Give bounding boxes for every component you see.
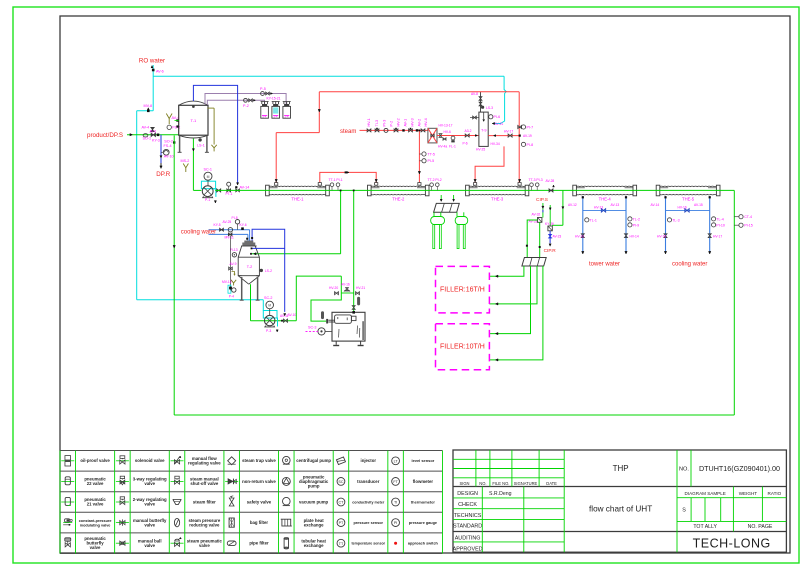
CIP drain drop (blue) to DP.R xyxy=(160,135,162,169)
svg-text:valve: valve xyxy=(144,543,155,548)
svg-text:oil-proof valve: oil-proof valve xyxy=(80,458,110,463)
svg-text:HV-20: HV-20 xyxy=(329,286,338,290)
svg-text:SO-1: SO-1 xyxy=(143,137,152,141)
title block header labels xyxy=(459,481,557,486)
svg-text:modulating valve: modulating valve xyxy=(80,523,111,527)
legend: pipe filter symbol xyxy=(227,541,236,545)
legend: steam pressure reducing valve symbol xyxy=(174,518,179,526)
svg-text:CIP.S: CIP.S xyxy=(536,197,548,203)
heat exchanger THE-3 xyxy=(466,185,529,196)
svg-text:pump: pump xyxy=(308,483,320,488)
legend: manual flow regulating valve symbol xyxy=(171,460,184,462)
legend: safety valve symbol xyxy=(229,498,234,502)
svg-text:RO water: RO water xyxy=(139,57,165,64)
svg-text:AV-32: AV-32 xyxy=(532,213,541,217)
svg-text:HV-13: HV-13 xyxy=(594,205,603,209)
red top rail xyxy=(319,91,519,93)
svg-text:STANDARD: STANDARD xyxy=(453,524,482,530)
steam line to vessel T-9 xyxy=(437,130,479,148)
svg-text:T-2: T-2 xyxy=(247,265,253,269)
valve AV-6 xyxy=(151,66,164,74)
instruments TT-5 PI-5 xyxy=(419,152,434,163)
green feed to tank T-2 xyxy=(252,190,342,255)
svg-text:pipe filter: pipe filter xyxy=(249,541,269,546)
svg-text:THE-1: THE-1 xyxy=(291,196,304,201)
svg-text:T-1: T-1 xyxy=(191,118,198,123)
svg-text:TI-3: TI-3 xyxy=(375,120,379,127)
svg-text:steam filter: steam filter xyxy=(193,499,216,504)
instruments CT-4 PI-15 on return rail xyxy=(734,215,752,228)
svg-text:FS-4: FS-4 xyxy=(164,144,172,148)
heat exchanger THE-4 xyxy=(573,185,637,196)
svg-text:FILLER:16T/H: FILLER:16T/H xyxy=(440,287,485,294)
product valve cluster xyxy=(142,125,176,143)
svg-text:temperature sensor: temperature sensor xyxy=(351,542,385,546)
svg-text:HV-13-17: HV-13-17 xyxy=(439,124,453,128)
svg-text:P-5: P-5 xyxy=(260,87,266,91)
svg-text:NO.: NO. xyxy=(679,467,689,473)
svg-text:valve: valve xyxy=(144,481,155,486)
legend: non-return valve symbol xyxy=(225,480,238,482)
svg-text:3-4: 3-4 xyxy=(273,115,277,119)
blue line T-2 top to pump P-3 xyxy=(246,229,296,317)
svg-text:21 valve: 21 valve xyxy=(87,502,104,507)
recirculation valves HV-20 HV-21 xyxy=(329,283,365,295)
legend: PI pressure gauge symbol xyxy=(392,519,400,527)
svg-text:TI: TI xyxy=(394,501,397,505)
svg-text:AV-10: AV-10 xyxy=(288,313,297,317)
svg-text:AV-10: AV-10 xyxy=(164,155,174,159)
svg-text:solenoid valve: solenoid valve xyxy=(135,458,165,463)
svg-text:cooling water: cooling water xyxy=(181,230,216,236)
svg-text:WEIGHT: WEIGHT xyxy=(739,491,758,496)
svg-text:PI-8: PI-8 xyxy=(232,216,238,220)
legend: pneumatic butterfly valve symbol xyxy=(65,538,71,541)
red drop to THE-1 left nozzle xyxy=(275,92,320,183)
svg-text:SIGNATURE: SIGNATURE xyxy=(514,481,538,486)
svg-text:KY-6: KY-6 xyxy=(240,223,247,227)
valve P-6 xyxy=(463,134,478,146)
legend: plate heat exchange symbol xyxy=(282,519,291,526)
legend: 3-way regulating valve symbol xyxy=(116,480,129,482)
svg-text:AV-14: AV-14 xyxy=(651,203,660,207)
svg-text:P-4: P-4 xyxy=(229,295,234,299)
product inlet line (green) xyxy=(127,134,179,136)
svg-text:injector: injector xyxy=(361,458,377,463)
svg-text:CT-4: CT-4 xyxy=(744,215,752,219)
svg-text:CT: CT xyxy=(338,501,344,505)
svg-text:AV-4: AV-4 xyxy=(142,125,150,129)
legend: FT flowmeter symbol xyxy=(392,478,400,486)
tank T-2 left instruments xyxy=(229,236,238,291)
svg-text:DTUHT16(GZ090401).00: DTUHT16(GZ090401).00 xyxy=(699,464,780,473)
svg-text:reducing valve: reducing valve xyxy=(189,522,220,527)
title block frame xyxy=(453,450,786,552)
svg-text:NO.: NO. xyxy=(479,481,486,486)
svg-text:SC-2: SC-2 xyxy=(264,296,272,300)
svg-text:TL-2: TL-2 xyxy=(633,217,640,221)
Y strainer FS-2 xyxy=(166,114,180,130)
valve AV-28 on main line xyxy=(546,179,555,192)
tank T-2 xyxy=(238,241,259,301)
svg-text:P-3: P-3 xyxy=(266,329,271,333)
svg-text:exchange: exchange xyxy=(304,543,324,548)
svg-text:AV-14: AV-14 xyxy=(240,186,250,190)
svg-text:steam: steam xyxy=(340,129,356,135)
legend: manual ball valve symbol xyxy=(116,542,129,544)
svg-text:LS-2: LS-2 xyxy=(265,269,272,273)
svg-text:P-2: P-2 xyxy=(243,104,249,108)
svg-text:THP: THP xyxy=(613,464,629,473)
long green CIP supply vertical xyxy=(173,136,175,416)
svg-text:AV-21: AV-21 xyxy=(495,122,504,126)
cooling water circuit THE-5 (blue) xyxy=(651,196,725,254)
svg-text:THE-3: THE-3 xyxy=(491,196,504,201)
valve MV-8 on cyan jog xyxy=(144,104,153,112)
svg-text:3-4: 3-4 xyxy=(284,115,288,119)
svg-text:TT-1 PI-1: TT-1 PI-1 xyxy=(329,178,343,182)
heat exchanger THE-1 xyxy=(266,185,330,196)
svg-text:RATIO: RATIO xyxy=(768,491,782,496)
svg-text:steam trap valve: steam trap valve xyxy=(242,458,276,463)
red downcomer right xyxy=(518,92,522,183)
legend: tubular heat exchange symbol xyxy=(284,538,288,548)
svg-text:shut-off valve: shut-off valve xyxy=(190,481,219,486)
svg-text:DP.R: DP.R xyxy=(156,171,171,178)
cooling water valves xyxy=(214,216,247,239)
svg-text:KY-5: KY-5 xyxy=(214,223,221,227)
svg-text:FILE NO.: FILE NO. xyxy=(492,481,509,486)
svg-text:AV-13: AV-13 xyxy=(611,203,620,207)
pump P-1 with motor SC-1 xyxy=(201,167,216,203)
svg-text:non-return valve: non-return valve xyxy=(242,479,276,484)
tower water circuit THE-4 (blue) xyxy=(568,196,640,254)
red transfer THE-1 to THE-2 xyxy=(320,171,378,184)
exchanger top nozzles xyxy=(275,183,522,186)
legend: steam pneumatic valve symbol xyxy=(171,542,184,544)
svg-text:pressure sensor: pressure sensor xyxy=(353,521,383,525)
svg-text:vacuum pump: vacuum pump xyxy=(299,499,329,504)
svg-text:approach switch: approach switch xyxy=(408,542,439,546)
pump P-4 cluster xyxy=(222,280,236,299)
svg-text:cooling water: cooling water xyxy=(672,261,707,267)
svg-text:AV-25: AV-25 xyxy=(223,220,232,224)
labels DIAGRAM SAMPLE WEIGHT RATIO xyxy=(685,491,782,496)
svg-text:regulating valve: regulating valve xyxy=(188,460,221,465)
svg-text:HV-21: HV-21 xyxy=(356,286,365,290)
svg-text:valve: valve xyxy=(144,522,155,527)
valve on homogenizer feed xyxy=(352,306,355,314)
svg-text:constant-pressure: constant-pressure xyxy=(79,519,112,523)
pulse damper capsules xyxy=(321,297,360,319)
svg-text:TECHNICS: TECHNICS xyxy=(454,513,482,519)
legend: TI thermometer symbol xyxy=(392,498,400,506)
CIP supply label and drop xyxy=(536,197,551,226)
legend: steam trap valve symbol xyxy=(228,457,236,465)
svg-text:AV-12: AV-12 xyxy=(568,203,577,207)
svg-text:AV-15: AV-15 xyxy=(694,203,703,207)
T-9 instruments xyxy=(465,106,504,152)
svg-text:TOT ALLY: TOT ALLY xyxy=(693,524,717,530)
heat exchanger THE-5 xyxy=(656,185,720,196)
svg-text:DATE: DATE xyxy=(546,481,557,486)
svg-text:PI-13: PI-13 xyxy=(230,248,238,252)
valve P-2 xyxy=(243,98,256,107)
svg-text:level sensor: level sensor xyxy=(412,458,435,463)
filler box FILLER:16T/H xyxy=(436,266,490,313)
svg-text:tower water: tower water xyxy=(589,261,620,267)
pump PU-1 circle xyxy=(161,144,174,159)
svg-text:PI-8: PI-8 xyxy=(527,143,534,147)
svg-text:PT-1: PT-1 xyxy=(226,192,233,196)
pump P-3 with motor SC-2 xyxy=(263,296,278,333)
svg-text:product/DP.S: product/DP.S xyxy=(87,132,123,139)
legend: TT temperature sensor symbol xyxy=(337,539,345,547)
svg-text:P-6: P-6 xyxy=(463,142,468,146)
svg-text:bag filter: bag filter xyxy=(250,520,268,525)
valve P-5 xyxy=(260,87,273,95)
svg-text:HV-3: HV-3 xyxy=(411,118,415,126)
svg-text:CHECK: CHECK xyxy=(458,502,477,508)
svg-text:flow chart of UHT: flow chart of UHT xyxy=(589,505,652,514)
svg-text:exchange: exchange xyxy=(304,522,324,527)
legend: PT pressure sensor symbol xyxy=(337,519,345,527)
svg-text:MS-2: MS-2 xyxy=(181,159,190,163)
homogenizer inlet stub xyxy=(326,319,334,324)
legend: CT conductivity meter symbol xyxy=(337,498,345,506)
steam header (red) xyxy=(360,129,428,131)
svg-text:valve: valve xyxy=(90,545,101,550)
svg-text:SC-1: SC-1 xyxy=(204,167,212,171)
steam header valves xyxy=(367,118,428,132)
svg-text:TT: TT xyxy=(339,542,344,546)
legend: manual butterfly valve symbol xyxy=(116,522,129,524)
svg-text:conductivity meter: conductivity meter xyxy=(352,500,385,504)
svg-text:LS-1: LS-1 xyxy=(197,144,205,148)
svg-text:AV-19: AV-19 xyxy=(523,134,532,138)
svg-text:M: M xyxy=(207,175,210,179)
svg-text:pressure gauge: pressure gauge xyxy=(409,521,437,525)
legend: pneumatic 21 valve symbol xyxy=(61,501,74,503)
legend: constant-pressure modulating valve symbol xyxy=(63,522,72,524)
svg-text:transducer: transducer xyxy=(357,479,380,484)
svg-text:flowmeter: flowmeter xyxy=(413,479,434,484)
svg-text:KY-26: KY-26 xyxy=(545,222,554,226)
red jog T-9 bottom to THE-3 xyxy=(474,146,504,182)
svg-text:KY-3: KY-3 xyxy=(152,138,160,142)
svg-text:safety valve: safety valve xyxy=(247,499,272,504)
homogenizer recirculation loop (green) xyxy=(296,276,353,321)
svg-text:AV-1: AV-1 xyxy=(404,119,408,127)
svg-text:3-4: 3-4 xyxy=(262,115,266,119)
legend: centrifugal pump symbol xyxy=(283,456,291,464)
svg-text:S.R.Deng: S.R.Deng xyxy=(489,491,512,497)
svg-text:HV-6: HV-6 xyxy=(444,130,451,134)
blue line tank T-1 to pump discharge xyxy=(193,85,249,191)
svg-text:FILLER:10T/H: FILLER:10T/H xyxy=(440,344,485,351)
steam pressure reducing station xyxy=(428,124,453,143)
svg-text:TT-3 PI-3: TT-3 PI-3 xyxy=(529,178,543,182)
green feed to homogenizer xyxy=(353,190,355,313)
svg-text:THE-5: THE-5 xyxy=(682,196,695,201)
svg-text:HV-16: HV-16 xyxy=(678,205,687,209)
legend: vacuum pump symbol xyxy=(283,497,291,505)
filler manifold M2 xyxy=(522,258,546,267)
svg-text:TL-3: TL-3 xyxy=(672,218,679,222)
CIP return blue drop xyxy=(544,231,562,254)
green jog to CIP valves xyxy=(552,190,564,225)
svg-text:APPROVED: APPROVED xyxy=(453,546,483,552)
svg-text:PI: PI xyxy=(394,521,397,525)
T-9 top fittings xyxy=(471,92,485,122)
svg-text:PT: PT xyxy=(339,521,344,525)
svg-text:TL-4: TL-4 xyxy=(716,217,723,221)
legend: injector symbol xyxy=(336,457,345,465)
svg-text:MV-12: MV-12 xyxy=(222,280,232,284)
svg-text:FL-1: FL-1 xyxy=(449,145,456,149)
svg-text:AV-28: AV-28 xyxy=(546,179,555,183)
svg-text:22 valve: 22 valve xyxy=(87,481,104,486)
svg-text:HV-34: HV-34 xyxy=(491,142,500,146)
svg-text:SIGN: SIGN xyxy=(459,481,469,486)
green bottom return rail xyxy=(174,414,734,416)
tank T-1 level sensor LS-1 xyxy=(197,138,205,147)
valve MS-2 strainer xyxy=(181,159,190,172)
svg-text:SC: SC xyxy=(338,480,343,484)
svg-text:HV-2: HV-2 xyxy=(397,118,401,126)
title block sign table grid xyxy=(453,450,564,552)
svg-text:AUDITING: AUDITING xyxy=(455,536,481,542)
svg-text:DIAGRAM SAMPLE: DIAGRAM SAMPLE xyxy=(685,491,726,496)
CIP return cyan line xyxy=(137,111,264,311)
svg-text:FT: FT xyxy=(393,480,398,484)
green right return rail xyxy=(733,190,735,415)
svg-text:MV-8: MV-8 xyxy=(144,104,153,108)
tank T-1 xyxy=(175,101,209,152)
cooler tube banks under M1 xyxy=(431,212,468,248)
svg-text:PI-10: PI-10 xyxy=(716,223,725,227)
svg-text:TL-1: TL-1 xyxy=(590,218,597,222)
svg-text:M: M xyxy=(268,304,271,308)
legend: steam manual shut-off valve symbol xyxy=(171,480,184,482)
svg-text:HV-4a: HV-4a xyxy=(438,145,447,149)
instruments TT-1 PI-1 xyxy=(329,178,343,190)
green main product line through exchangers xyxy=(215,189,734,191)
legend: pneumatic 22 valve symbol xyxy=(61,480,74,482)
svg-text:AV-8: AV-8 xyxy=(471,92,478,96)
steam outlet from T-9 (red) xyxy=(488,129,520,137)
svg-text:THE-4: THE-4 xyxy=(599,196,612,201)
svg-text:HV-17: HV-17 xyxy=(504,129,513,133)
svg-text:LS-3: LS-3 xyxy=(486,106,493,110)
filler manifold M2 feeds xyxy=(526,220,541,258)
svg-text:TT-5: TT-5 xyxy=(428,152,435,156)
svg-text:AV-11: AV-11 xyxy=(280,314,289,318)
legend: steam filter symbol xyxy=(173,499,181,504)
svg-text:DESIGN: DESIGN xyxy=(457,491,478,497)
svg-text:CIP.R: CIP.R xyxy=(544,248,557,254)
instruments PI-7 PI-8 xyxy=(521,125,533,147)
svg-text:valve: valve xyxy=(144,502,155,507)
svg-text:P-2: P-2 xyxy=(390,121,394,127)
tank T-2 level sensor LS-2 xyxy=(260,269,272,273)
instruments TT-2 PI-2 xyxy=(428,178,442,190)
vessel T-9 steam injector xyxy=(479,112,488,146)
svg-text:PI-6: PI-6 xyxy=(494,115,501,119)
svg-text:AV-5: AV-5 xyxy=(150,129,157,133)
svg-text:MV-11: MV-11 xyxy=(225,236,234,240)
legend: oil-proof valve symbol xyxy=(61,460,74,462)
svg-text:HV-25: HV-25 xyxy=(476,148,485,152)
plate heat exchanger M1 xyxy=(434,195,460,212)
svg-text:TECH-LONG: TECH-LONG xyxy=(693,537,771,551)
svg-text:thermometer: thermometer xyxy=(411,499,436,504)
dosing lines (purple) xyxy=(205,94,286,106)
svg-text:PI-5: PI-5 xyxy=(428,159,435,163)
legend: SC transducer symbol xyxy=(337,478,345,486)
tank T-2 outlet to pump P-3 (green) xyxy=(250,253,296,321)
RO water supply line (cyan) xyxy=(137,65,507,124)
homogenizer motor SC-3 xyxy=(306,326,333,335)
legend: LT level sensor symbol xyxy=(392,457,400,465)
svg-text:KY-15-21: KY-15-21 xyxy=(267,97,281,101)
CIP valve square KY-26 xyxy=(545,222,554,231)
svg-text:PI-7: PI-7 xyxy=(527,125,534,129)
red feed to THE-2 right nozzle xyxy=(418,130,420,183)
legend: approach switch symbol xyxy=(394,542,397,545)
svg-text:S: S xyxy=(682,508,686,514)
title block right grid xyxy=(677,450,786,552)
svg-text:PI-15: PI-15 xyxy=(744,224,753,228)
instruments TT-3 PI-3 xyxy=(529,178,543,190)
svg-text:AV-6: AV-6 xyxy=(156,70,164,74)
legend table grid xyxy=(60,451,443,554)
svg-text:SC-3: SC-3 xyxy=(308,326,316,330)
legend: 2-way regulating valve symbol xyxy=(116,501,129,503)
svg-text:centrifugal pump: centrifugal pump xyxy=(296,458,331,463)
svg-text:AV-16: AV-16 xyxy=(341,283,350,287)
CIP valve square AV-32 xyxy=(529,213,542,224)
filler feed lines (green) xyxy=(489,266,543,361)
svg-text:valve: valve xyxy=(199,543,210,548)
tank T-1 outlet green xyxy=(192,139,201,191)
svg-text:NO. PAGE: NO. PAGE xyxy=(748,524,773,530)
pump P-1 discharge instruments xyxy=(217,182,233,196)
title block sign rows xyxy=(453,491,512,552)
svg-text:PI-9: PI-9 xyxy=(633,223,640,227)
svg-text:HV-4: HV-4 xyxy=(424,118,428,126)
labels TOT ALLY NO. PAGE xyxy=(693,524,773,530)
svg-text:HV-12: HV-12 xyxy=(575,234,584,238)
svg-text:AV-9: AV-9 xyxy=(230,262,237,266)
heat exchanger THE-2 xyxy=(368,185,430,196)
svg-text:T-9: T-9 xyxy=(481,129,487,133)
svg-text:HV-17: HV-17 xyxy=(713,234,722,238)
svg-text:HV-15: HV-15 xyxy=(657,234,666,238)
homogenizer T-8 xyxy=(332,312,365,346)
svg-text:A3-2: A3-2 xyxy=(465,129,472,133)
svg-text:HV-1: HV-1 xyxy=(367,118,371,126)
dosing bottles xyxy=(261,102,291,119)
svg-text:THE-2: THE-2 xyxy=(392,196,405,201)
tank T-1 overflow pipe with vent xyxy=(207,108,216,151)
svg-text:P-1: P-1 xyxy=(205,198,210,202)
svg-text:AV-2: AV-2 xyxy=(418,119,422,127)
filler box FILLER:10T/H xyxy=(436,324,490,370)
svg-text:AV-23: AV-23 xyxy=(553,234,562,238)
svg-text:HV-14: HV-14 xyxy=(630,234,639,238)
svg-text:PI-3: PI-3 xyxy=(383,120,387,127)
